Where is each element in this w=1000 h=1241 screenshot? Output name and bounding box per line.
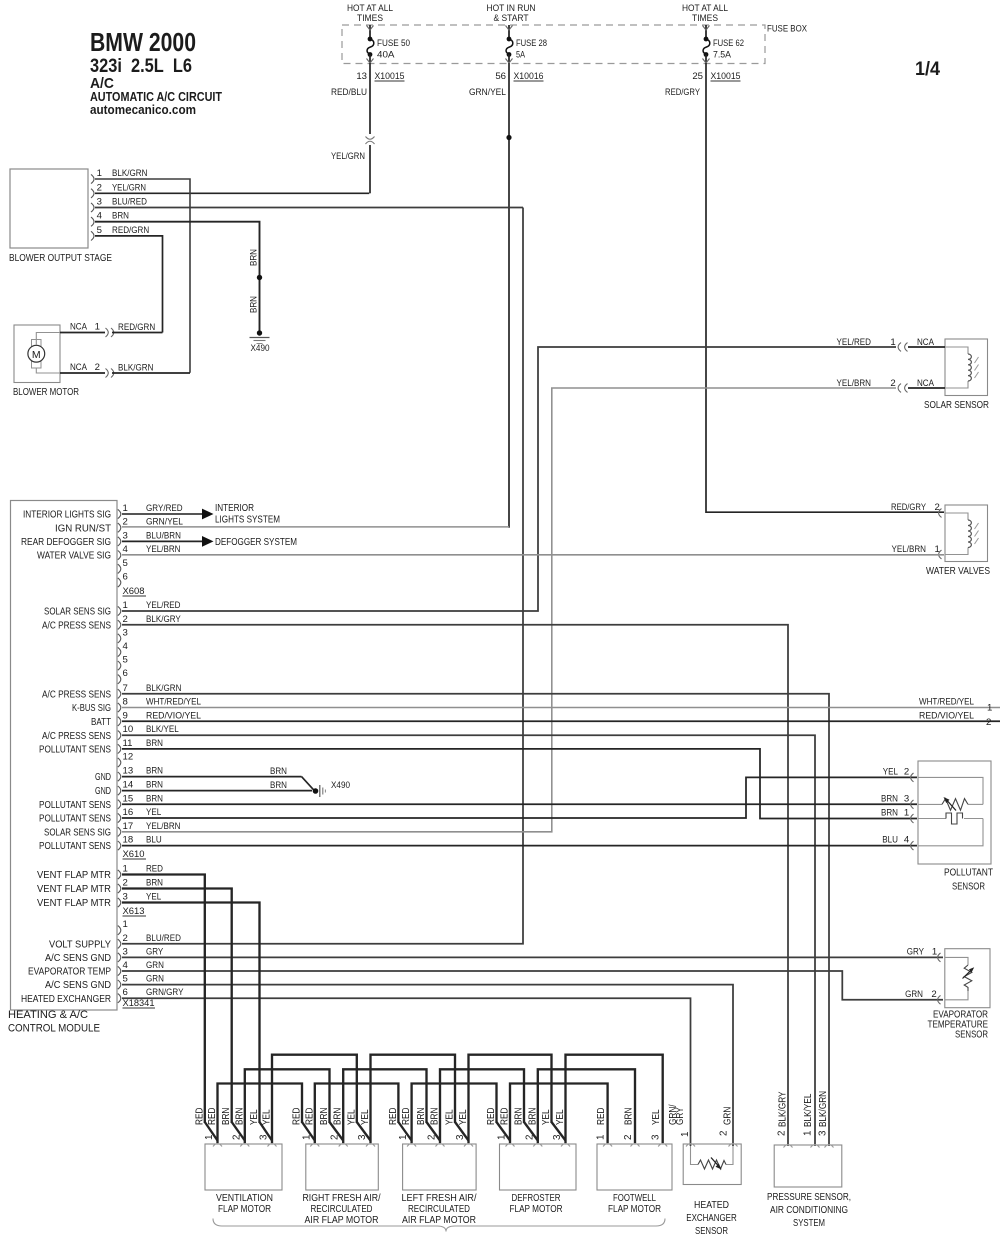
svg-text:1: 1	[301, 1135, 312, 1140]
wire RED bus from ventilation flap motor pin 1 to next motor	[218, 1084, 303, 1144]
svg-text:4: 4	[123, 544, 129, 555]
svg-text:FUSE 50: FUSE 50	[377, 38, 410, 49]
svg-text:X490: X490	[251, 343, 270, 354]
X610 pin 6	[118, 675, 121, 684]
X608 pin 3 BLU/BRN	[118, 537, 121, 546]
right fresh air flap motor pin 2 entry	[339, 1144, 348, 1147]
X610 pin 9 RED/VIO/YEL	[118, 717, 121, 726]
svg-text:AIR CONDITIONING: AIR CONDITIONING	[770, 1205, 848, 1216]
svg-text:YEL: YEL	[541, 1109, 552, 1125]
svg-text:YEL/RED: YEL/RED	[146, 600, 181, 611]
svg-text:TIMES: TIMES	[357, 13, 383, 24]
blower output stage pin 5 RED/GRN	[91, 231, 94, 240]
svg-text:2: 2	[931, 989, 936, 1000]
fuse box outline	[342, 25, 765, 64]
svg-text:BMW 2000: BMW 2000	[90, 27, 196, 57]
svg-text:RED: RED	[194, 1108, 205, 1125]
wire RED bus from right fresh air flap motor pin 1 to next motor	[315, 1084, 399, 1144]
svg-text:3: 3	[123, 627, 128, 638]
svg-text:1: 1	[398, 1135, 409, 1140]
arrow to INTERIOR LIGHTS SYSTEM	[202, 509, 214, 520]
svg-text:BRN: BRN	[146, 766, 163, 777]
wire RED bus from defroster flap motor pin 1 to next motor	[510, 1084, 608, 1144]
svg-text:2: 2	[97, 182, 102, 193]
svg-text:3: 3	[455, 1134, 466, 1140]
svg-text:GRY: GRY	[907, 946, 925, 957]
X608 pin 1 GRY/RED	[118, 509, 121, 518]
footwell flap motor pin 3 entry	[658, 1144, 667, 1147]
wire BLU/RED vertical down to X18341 pin 2	[122, 208, 523, 944]
svg-text:2: 2	[777, 1131, 788, 1136]
svg-text:BLU: BLU	[882, 835, 898, 846]
svg-text:POLLUTANT SENS: POLLUTANT SENS	[39, 814, 111, 825]
svg-text:NCA: NCA	[917, 378, 934, 389]
svg-text:56: 56	[495, 71, 506, 82]
heated exchanger pin 2 entry	[729, 1144, 738, 1147]
X610 pin 16 YEL	[118, 813, 121, 822]
svg-text:2: 2	[123, 878, 128, 889]
wire BLK/GRY X610 pin2 to pressure sensor pin 2	[122, 625, 788, 1146]
wire BLU X610 pin18 to pollutant sensor pin 4	[122, 845, 917, 847]
svg-text:FUSE 28: FUSE 28	[516, 38, 547, 49]
svg-text:YEL: YEL	[262, 1109, 273, 1125]
svg-text:FUSE 62: FUSE 62	[713, 38, 744, 49]
blower output stage pin 4 BRN	[91, 217, 94, 226]
X18341 pin 5 GRN	[118, 980, 121, 989]
svg-text:AIR FLAP MOTOR: AIR FLAP MOTOR	[305, 1215, 379, 1226]
evaporator temperature sensor box	[945, 949, 990, 1008]
wire WHT/RED/YEL X610 pin8 off page right	[122, 707, 1000, 709]
svg-text:WATER VALVE SIG: WATER VALVE SIG	[37, 551, 111, 562]
svg-text:automecanico.com: automecanico.com	[90, 103, 196, 117]
svg-text:YEL/GRN: YEL/GRN	[112, 182, 146, 193]
solar sensor box with coil	[945, 339, 988, 396]
svg-text:VOLT SUPPLY: VOLT SUPPLY	[49, 939, 111, 950]
svg-text:BLU/RED: BLU/RED	[146, 933, 181, 944]
wire RED/GRY from fuse 62 down to water valves pin 2	[705, 63, 707, 513]
svg-text:SENSOR: SENSOR	[695, 1226, 728, 1237]
svg-text:INTERIOR: INTERIOR	[215, 503, 254, 514]
svg-text:6: 6	[123, 572, 128, 583]
wire GRY/RED to interior lights arrow	[122, 513, 202, 515]
svg-text:HEATED: HEATED	[694, 1200, 729, 1211]
wire YEL bus from ventilation flap motor pin 3 to next motor	[272, 1055, 357, 1143]
X18341 pin 1	[118, 926, 121, 935]
X613 pin 3 YEL	[118, 898, 121, 907]
svg-text:& START: & START	[494, 13, 529, 24]
X613 pin 2 BRN	[118, 884, 121, 893]
svg-text:RED: RED	[401, 1108, 412, 1125]
svg-text:AUTOMATIC A/C CIRCUIT: AUTOMATIC A/C CIRCUIT	[90, 90, 222, 104]
svg-text:BRN: BRN	[514, 1108, 525, 1125]
svg-text:X10016: X10016	[514, 71, 544, 82]
footwell flap motor box	[597, 1144, 672, 1190]
svg-text:BRN: BRN	[430, 1108, 441, 1125]
svg-text:GRN/GRY: GRN/GRY	[146, 987, 184, 998]
svg-text:2: 2	[986, 717, 991, 728]
svg-text:RECIRCULATED: RECIRCULATED	[311, 1204, 373, 1215]
svg-text:WHT/RED/YEL: WHT/RED/YEL	[146, 697, 202, 708]
X610 pin 12	[118, 758, 121, 767]
svg-text:SOLAR SENS SIG: SOLAR SENS SIG	[44, 607, 111, 618]
wire BLK/YEL X610 pin10 to pressure sensor pin 1	[122, 735, 815, 1146]
defroster flap motor pin 3 entry	[561, 1144, 570, 1147]
blower output stage pin 3 BLU/RED	[91, 203, 94, 212]
right fresh air flap motor box	[306, 1144, 379, 1190]
brace under flap motors	[213, 1219, 665, 1232]
svg-text:BLU/RED: BLU/RED	[112, 197, 147, 208]
ground X490 upper	[257, 330, 262, 335]
svg-text:SOLAR SENSOR: SOLAR SENSOR	[924, 400, 989, 411]
svg-text:HEATED EXCHANGER: HEATED EXCHANGER	[21, 994, 111, 1005]
svg-text:RED/GRN: RED/GRN	[118, 322, 155, 333]
svg-text:DEFOGGER SYSTEM: DEFOGGER SYSTEM	[215, 537, 297, 548]
svg-text:323i 2.5L L6: 323i 2.5L L6	[90, 56, 192, 77]
X610 pin 8 WHT/RED/YEL	[118, 703, 121, 712]
svg-text:YEL: YEL	[555, 1109, 566, 1125]
svg-text:25: 25	[692, 71, 703, 82]
svg-text:FLAP MOTOR: FLAP MOTOR	[218, 1204, 271, 1215]
blower motor pin 1 NCA RED/GRN	[60, 332, 105, 334]
X608 pin 4 YEL/BRN	[118, 551, 121, 560]
X610 pin 17 YEL/BRN	[118, 827, 121, 836]
X610 pin 2 BLK/GRY	[118, 620, 121, 629]
svg-text:5: 5	[123, 558, 128, 569]
ventilation flap motor pin 2 entry	[240, 1144, 249, 1147]
wire BRN diagonal into ventilation flap motor pin 2	[232, 1122, 245, 1141]
wire GRN X18341 pin4 to evaporator pin 2	[122, 971, 943, 1000]
inline connector on fuse 50 wire	[366, 137, 375, 140]
svg-text:VENTILATION: VENTILATION	[216, 1193, 273, 1204]
svg-text:YEL: YEL	[249, 1109, 260, 1125]
defroster flap motor box	[500, 1144, 577, 1190]
X610 pin 5	[118, 661, 121, 670]
svg-text:RIGHT FRESH AIR/: RIGHT FRESH AIR/	[303, 1193, 381, 1204]
pressure sensor pin 2 entry	[784, 1145, 793, 1148]
svg-text:YEL: YEL	[146, 807, 162, 818]
svg-text:1: 1	[932, 946, 937, 957]
arrow to DEFOGGER SYSTEM	[202, 536, 214, 547]
X613 pin 1 RED	[118, 870, 121, 879]
svg-text:EVAPORATOR TEMP: EVAPORATOR TEMP	[28, 967, 111, 978]
wire YEL/GRN down to blower output stage pin 2	[369, 145, 371, 193]
svg-text:2: 2	[330, 1135, 341, 1140]
svg-text:1: 1	[123, 864, 128, 875]
wire YEL bus from defroster flap motor pin 3 to next motor	[566, 1055, 663, 1143]
svg-text:K-BUS SIG: K-BUS SIG	[72, 703, 111, 714]
evaporator sensor internal wiring	[945, 957, 968, 965]
svg-text:X10015: X10015	[375, 71, 405, 82]
wire BLK/GRN X610 pin7 to pressure sensor pin 3	[122, 694, 829, 1146]
X18341 pin 4 GRN	[118, 966, 121, 975]
svg-text:8: 8	[123, 697, 128, 708]
wire BRN X610 pin13 to ground X490	[122, 776, 302, 778]
svg-text:YEL/BRN: YEL/BRN	[146, 821, 181, 832]
svg-text:RECIRCULATED: RECIRCULATED	[408, 1204, 470, 1215]
svg-text:12: 12	[123, 752, 134, 763]
left fresh air flap motor box	[403, 1144, 477, 1190]
svg-text:RED: RED	[304, 1108, 315, 1125]
svg-text:YEL: YEL	[346, 1109, 357, 1125]
svg-text:BLK/GRN: BLK/GRN	[146, 683, 181, 694]
svg-text:GRY/RED: GRY/RED	[146, 503, 183, 514]
svg-text:9: 9	[123, 710, 128, 721]
wire RED diagonal into ventilation flap motor pin 1	[205, 1122, 218, 1141]
svg-text:X10015: X10015	[711, 71, 741, 82]
svg-text:2: 2	[123, 614, 128, 625]
svg-text:1: 1	[97, 168, 102, 179]
X608 pin 6	[118, 578, 121, 587]
svg-text:SENSOR: SENSOR	[955, 1030, 988, 1041]
fuse 28 5A	[508, 25, 510, 38]
svg-text:BRN: BRN	[319, 1108, 330, 1125]
svg-text:HEATING & A/C: HEATING & A/C	[8, 1009, 88, 1021]
svg-text:BLK/GRY: BLK/GRY	[146, 614, 181, 625]
svg-text:NCA: NCA	[917, 337, 934, 348]
svg-text:LIGHTS SYSTEM: LIGHTS SYSTEM	[215, 515, 280, 526]
X18341 pin 6 GRN/GRY	[118, 994, 121, 1003]
footwell flap motor pin 1 entry	[603, 1144, 612, 1147]
svg-text:1: 1	[204, 1135, 215, 1140]
svg-text:GRN: GRN	[146, 974, 164, 985]
svg-text:2: 2	[904, 766, 909, 777]
svg-text:3: 3	[552, 1134, 563, 1140]
svg-text:CONTROL MODULE: CONTROL MODULE	[8, 1023, 100, 1035]
svg-text:3: 3	[123, 892, 128, 903]
wire YEL bus from left fresh air flap motor pin 3 to next motor	[469, 1055, 552, 1143]
svg-text:11: 11	[123, 738, 133, 749]
svg-text:RED: RED	[207, 1108, 218, 1125]
right fresh air flap motor pin 1 entry	[310, 1144, 319, 1147]
wire YEL diagonal into ventilation flap motor pin 3	[260, 1122, 273, 1141]
svg-text:6: 6	[123, 668, 128, 679]
svg-text:1: 1	[123, 503, 128, 514]
svg-text:3: 3	[259, 1134, 270, 1140]
svg-text:4: 4	[97, 211, 103, 222]
svg-text:POLLUTANT SENS: POLLUTANT SENS	[39, 841, 111, 852]
X610 pin 11 BRN	[118, 744, 121, 753]
svg-text:WATER VALVES: WATER VALVES	[926, 566, 990, 577]
pollutant sensor box	[918, 761, 991, 864]
heated exchanger internal wiring	[691, 1146, 699, 1165]
svg-text:A/C PRESS SENS: A/C PRESS SENS	[42, 620, 111, 631]
wire BRN diagonal into defroster flap motor pin 2	[524, 1122, 538, 1141]
svg-text:REAR DEFOGGER SIG: REAR DEFOGGER SIG	[21, 537, 111, 548]
svg-text:POLLUTANT SENS: POLLUTANT SENS	[39, 745, 111, 756]
wire RED from X613 pin 1 down	[122, 875, 205, 1124]
svg-text:1: 1	[497, 1135, 508, 1140]
svg-text:SENSOR: SENSOR	[952, 882, 985, 893]
svg-text:2: 2	[719, 1131, 730, 1136]
svg-text:7: 7	[123, 683, 128, 694]
svg-text:IGN RUN/ST: IGN RUN/ST	[55, 523, 111, 534]
svg-text:14: 14	[123, 780, 134, 791]
svg-text:3: 3	[357, 1134, 368, 1140]
svg-text:FUSE BOX: FUSE BOX	[767, 24, 807, 35]
svg-text:GRN: GRN	[723, 1107, 734, 1125]
svg-text:YEL/GRN: YEL/GRN	[331, 151, 365, 162]
wire YEL diagonal into right fresh air flap motor pin 3	[357, 1122, 371, 1141]
svg-text:DEFROSTER: DEFROSTER	[512, 1193, 561, 1204]
svg-text:FLAP MOTOR: FLAP MOTOR	[510, 1204, 563, 1215]
svg-text:5: 5	[123, 974, 128, 985]
svg-text:15: 15	[123, 793, 134, 804]
svg-text:4: 4	[123, 960, 129, 971]
wire RED diagonal into defroster flap motor pin 1	[497, 1122, 511, 1141]
svg-text:BRN: BRN	[146, 738, 163, 749]
ventilation flap motor pin 3 entry	[268, 1144, 277, 1147]
svg-text:3: 3	[651, 1134, 662, 1140]
svg-text:FOOTWELL: FOOTWELL	[613, 1193, 656, 1204]
svg-text:RED/VIO/YEL: RED/VIO/YEL	[919, 710, 975, 721]
svg-text:RED/VIO/YEL: RED/VIO/YEL	[146, 710, 202, 721]
svg-text:1: 1	[803, 1131, 814, 1136]
svg-text:BLK/GRY: BLK/GRY	[778, 1091, 789, 1127]
svg-text:4: 4	[123, 641, 129, 652]
svg-text:BRN: BRN	[146, 780, 163, 791]
X610 pin 14 BRN	[118, 786, 121, 795]
svg-text:PRESSURE SENSOR,: PRESSURE SENSOR,	[767, 1192, 851, 1203]
svg-text:2: 2	[524, 1135, 535, 1140]
svg-text:RED/BLU: RED/BLU	[331, 87, 367, 98]
svg-text:A/C SENS GND: A/C SENS GND	[45, 953, 111, 964]
svg-text:GRN: GRN	[905, 989, 923, 1000]
svg-text:18: 18	[123, 835, 134, 846]
svg-text:1: 1	[904, 808, 909, 819]
svg-text:BRN: BRN	[234, 1108, 245, 1125]
svg-text:NCA: NCA	[70, 362, 87, 373]
svg-text:1: 1	[123, 919, 128, 930]
svg-text:X608: X608	[123, 586, 145, 597]
ground X490 lower	[313, 788, 319, 794]
svg-text:GRN: GRN	[146, 960, 164, 971]
svg-text:5: 5	[97, 225, 102, 236]
defroster flap motor pin 2 entry	[533, 1144, 542, 1147]
wire BRN X610 pin11 to pollutant sensor pin 1	[122, 749, 917, 819]
wire BRN X610 pin14 to ground X490	[122, 790, 312, 792]
X610 pin 3	[118, 634, 121, 643]
svg-text:BRN: BRN	[249, 249, 260, 266]
svg-text:BLU: BLU	[146, 835, 162, 846]
svg-text:WHT/RED/YEL: WHT/RED/YEL	[919, 697, 975, 708]
svg-text:1: 1	[596, 1135, 607, 1140]
svg-text:GND: GND	[95, 786, 111, 797]
svg-text:BLK/YEL: BLK/YEL	[146, 724, 179, 735]
wire RED/BLU from fuse 50 down	[369, 63, 371, 134]
svg-text:5: 5	[123, 655, 128, 666]
junction dot on BRN wire	[257, 275, 262, 280]
svg-text:BRN: BRN	[333, 1108, 344, 1125]
X610 pin 1 YEL/RED	[118, 606, 121, 615]
svg-text:BRN: BRN	[270, 766, 287, 777]
ventilation flap motor pin 1 entry	[213, 1144, 222, 1147]
svg-text:M: M	[32, 349, 41, 361]
wire pin3 BLU/RED right to vertical	[95, 207, 523, 209]
resistor in heated exchanger sensor	[698, 1160, 726, 1169]
svg-text:YEL: YEL	[883, 766, 899, 777]
svg-text:SOLAR SENS SIG: SOLAR SENS SIG	[44, 827, 111, 838]
svg-text:A/C PRESS SENS: A/C PRESS SENS	[42, 731, 111, 742]
fuse 50 40A	[369, 25, 371, 38]
wire pin4 BRN to ground	[95, 222, 260, 332]
svg-text:2: 2	[95, 362, 100, 373]
svg-text:BLK/YEL: BLK/YEL	[803, 1093, 814, 1127]
svg-text:BLK/GRN: BLK/GRN	[118, 363, 153, 374]
wire RED diagonal into left fresh air flap motor pin 1	[398, 1122, 411, 1141]
wire BRN diagonal into left fresh air flap motor pin 2	[427, 1122, 441, 1141]
blower output stage box	[10, 169, 88, 248]
wire BRN bus from ventilation flap motor pin 2 to next motor	[245, 1069, 330, 1143]
svg-text:3: 3	[97, 197, 102, 208]
svg-text:6: 6	[123, 987, 128, 998]
X608 pin 2 GRN/YEL	[118, 523, 121, 532]
svg-text:16: 16	[123, 807, 134, 818]
X18341 pin 2 BLU/RED	[118, 939, 121, 948]
svg-text:RED: RED	[146, 864, 163, 875]
wire YEL X610 pin16 to pollutant sensor pin 2	[122, 777, 917, 818]
svg-text:YEL: YEL	[360, 1109, 371, 1125]
svg-text:YEL: YEL	[445, 1109, 456, 1125]
wire YEL bus from right fresh air flap motor pin 3 to next motor	[371, 1055, 456, 1143]
X610 pin 15 BRN	[118, 800, 121, 809]
svg-text:YEL: YEL	[146, 892, 162, 903]
svg-text:INTERIOR LIGHTS SIG: INTERIOR LIGHTS SIG	[23, 510, 111, 521]
wire BRN bus from right fresh air flap motor pin 2 to next motor	[343, 1069, 426, 1143]
svg-text:3: 3	[904, 793, 909, 804]
svg-text:7.5A: 7.5A	[713, 50, 732, 61]
svg-text:AIR FLAP MOTOR: AIR FLAP MOTOR	[402, 1215, 476, 1226]
svg-text:GRY: GRY	[675, 1107, 686, 1125]
wire BRN bus from left fresh air flap motor pin 2 to next motor	[440, 1069, 524, 1143]
blower motor box	[14, 325, 60, 383]
svg-text:3: 3	[123, 946, 128, 957]
svg-text:2: 2	[427, 1135, 438, 1140]
wire RED/VIO/YEL X610 pin9 off page right	[122, 720, 1000, 722]
svg-text:BRN: BRN	[881, 808, 898, 819]
svg-text:BRN: BRN	[416, 1108, 427, 1125]
svg-text:2: 2	[623, 1135, 634, 1140]
svg-text:BRN: BRN	[270, 780, 287, 791]
svg-text:GND: GND	[95, 772, 111, 783]
wire RED bus from left fresh air flap motor pin 1 to next motor	[412, 1084, 497, 1144]
svg-text:10: 10	[123, 724, 134, 735]
svg-text:BLOWER MOTOR: BLOWER MOTOR	[13, 387, 79, 398]
svg-text:EXCHANGER: EXCHANGER	[686, 1213, 737, 1224]
svg-text:5A: 5A	[516, 50, 525, 61]
pressure sensor pin 3 entry	[825, 1145, 834, 1148]
wire GRN/YEL from fuse 28 down to X608 pin 2	[508, 63, 510, 528]
svg-text:BLU/BRN: BLU/BRN	[146, 530, 181, 541]
wire BRN bus from defroster flap motor pin 2 to next motor	[538, 1069, 635, 1143]
svg-text:BRN: BRN	[146, 793, 163, 804]
wire BLU/BRN to defogger arrow	[122, 540, 202, 542]
heater element in pollutant sensor	[946, 813, 963, 824]
svg-text:X613: X613	[123, 906, 145, 917]
svg-text:YEL/BRN: YEL/BRN	[892, 544, 927, 555]
wire YEL/RED from X610 pin 1 to solar sensor	[122, 347, 896, 611]
svg-text:BLK/GRN: BLK/GRN	[818, 1091, 829, 1127]
wire YEL/BRN from X610 pin 17 to solar sensor	[122, 388, 896, 832]
svg-text:BATT: BATT	[91, 717, 111, 728]
svg-text:1: 1	[680, 1132, 691, 1137]
svg-text:1: 1	[987, 703, 992, 714]
svg-text:YEL/BRN: YEL/BRN	[146, 544, 181, 555]
svg-text:RED/GRY: RED/GRY	[665, 87, 700, 98]
svg-text:VENT FLAP MTR: VENT FLAP MTR	[37, 870, 111, 881]
svg-text:BRN: BRN	[881, 793, 898, 804]
blower motor pin 2 NCA BLK/GRN	[60, 372, 105, 374]
blower motor M symbol	[32, 340, 42, 348]
